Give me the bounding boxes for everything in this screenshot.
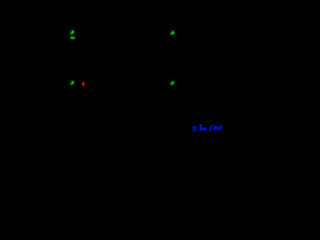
letter X: [193, 126, 197, 131]
transistor Q1 base bar (green dash): [70, 37, 75, 39]
transistor Q2 emitter arrow (lower-left, green glow): [71, 81, 74, 85]
LED D1 (red, lit): [82, 82, 85, 87]
slash: [210, 125, 212, 131]
signature watermark (blue): [193, 124, 223, 131]
transistor Q4 emitter arrow (lower-right, green glow): [171, 81, 174, 85]
letters Jm: [200, 124, 207, 130]
transistor Q1 emitter arrow (upper-left, green glow): [70, 30, 73, 34]
letters RW: [213, 126, 220, 131]
transistor Q3 emitter arrow (upper-right, green glow): [171, 31, 174, 35]
